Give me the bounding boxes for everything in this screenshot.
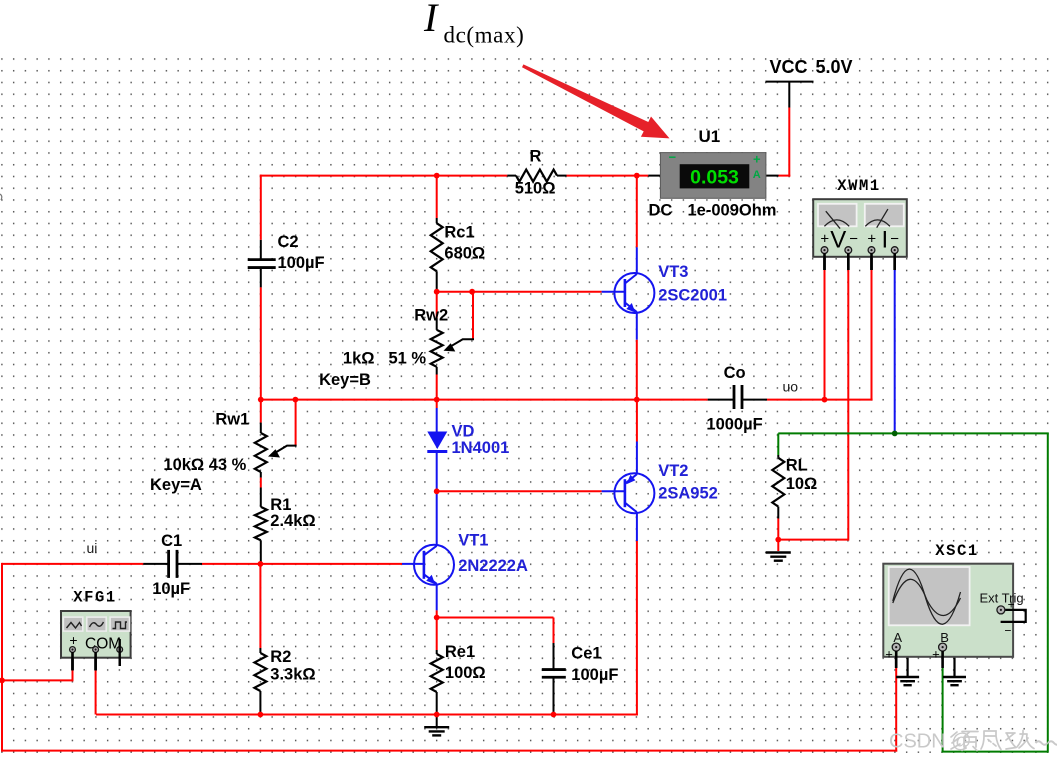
- svg-text:Rc1: Rc1: [444, 224, 474, 242]
- svg-text:2.4kΩ: 2.4kΩ: [270, 512, 315, 530]
- svg-text:2SC2001: 2SC2001: [658, 287, 727, 305]
- svg-text:680Ω: 680Ω: [444, 245, 485, 263]
- svg-text:uo: uo: [783, 379, 799, 395]
- svg-text:5.0V: 5.0V: [816, 57, 853, 77]
- svg-text:DC: DC: [649, 202, 673, 220]
- svg-text:100Ω: 100Ω: [445, 664, 486, 682]
- svg-text:RL: RL: [786, 457, 808, 475]
- svg-text:U1: U1: [699, 127, 721, 146]
- svg-text:Key=A: Key=A: [150, 476, 202, 494]
- svg-text:−: −: [669, 150, 677, 165]
- svg-text:3.3kΩ: 3.3kΩ: [270, 666, 315, 684]
- svg-text:1e-009Ohm: 1e-009Ohm: [688, 202, 777, 220]
- svg-text:I: I: [423, 0, 439, 40]
- svg-text:XWM1: XWM1: [837, 177, 881, 195]
- svg-text:100µF: 100µF: [278, 254, 325, 272]
- svg-text:10kΩ 43 %: 10kΩ 43 %: [163, 456, 246, 474]
- svg-text:1kΩ: 1kΩ: [343, 350, 375, 368]
- svg-text:VT3: VT3: [658, 263, 688, 281]
- svg-text:0.053: 0.053: [690, 167, 739, 189]
- svg-text:VT1: VT1: [458, 532, 488, 550]
- svg-text:COM: COM: [85, 636, 121, 653]
- svg-text:100µF: 100µF: [571, 666, 618, 684]
- svg-text:XFG1: XFG1: [73, 588, 117, 606]
- svg-text:Co: Co: [724, 364, 746, 382]
- svg-text:Ce1: Ce1: [571, 645, 601, 663]
- svg-text:Ext Trig: Ext Trig: [980, 591, 1024, 606]
- svg-text:VCC: VCC: [770, 57, 808, 77]
- svg-text:C1: C1: [161, 532, 182, 550]
- svg-text:ui: ui: [87, 540, 98, 556]
- svg-text:−: −: [849, 230, 858, 247]
- svg-text:1N4001: 1N4001: [452, 439, 510, 457]
- svg-text:+: +: [69, 632, 77, 648]
- svg-text:VD: VD: [452, 423, 475, 441]
- svg-text:VT2: VT2: [658, 462, 688, 480]
- svg-text:+: +: [885, 647, 893, 662]
- svg-text:A: A: [753, 169, 761, 181]
- svg-text:V: V: [830, 226, 846, 253]
- svg-text:C2: C2: [278, 233, 299, 251]
- svg-text:+: +: [820, 230, 829, 247]
- svg-text:Rw1: Rw1: [215, 411, 249, 429]
- svg-text:1000µF: 1000µF: [706, 416, 762, 434]
- svg-text:−: −: [1004, 623, 1011, 637]
- svg-text:510Ω: 510Ω: [515, 180, 556, 198]
- svg-text:R: R: [530, 148, 542, 166]
- svg-text:+: +: [753, 152, 761, 167]
- svg-text:2N2222A: 2N2222A: [458, 557, 528, 575]
- svg-text:CSDN @: CSDN @: [889, 731, 972, 753]
- svg-text:Re1: Re1: [445, 643, 475, 661]
- svg-text:Key=B: Key=B: [319, 371, 371, 389]
- svg-text:R2: R2: [270, 648, 291, 666]
- svg-text:+: +: [932, 647, 940, 662]
- svg-text:+: +: [867, 230, 876, 247]
- svg-text:2SA952: 2SA952: [658, 485, 718, 503]
- svg-text:I: I: [881, 226, 888, 253]
- svg-text:10Ω: 10Ω: [786, 475, 818, 493]
- svg-text:10µF: 10µF: [152, 580, 190, 598]
- svg-text:Rw2: Rw2: [414, 307, 448, 325]
- svg-text:51 %: 51 %: [389, 350, 427, 368]
- svg-text:dc(max): dc(max): [444, 23, 525, 48]
- svg-text:XSC1: XSC1: [935, 542, 979, 560]
- svg-text:−: −: [890, 230, 899, 247]
